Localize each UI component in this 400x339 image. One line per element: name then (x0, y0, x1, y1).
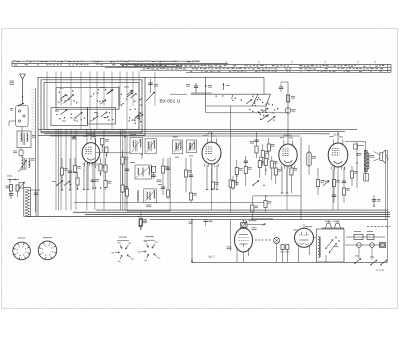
resistor R14 (184, 158, 191, 192)
coupling C20 (250, 132, 259, 158)
tube socket diagram B1 (13, 238, 31, 260)
resistor R17 (231, 176, 238, 190)
switch unit wires (47, 72, 155, 211)
switch contacts row SD (91, 87, 114, 104)
link dashes (255, 239, 272, 241)
screen R16 (235, 160, 242, 186)
contact S11 (252, 181, 264, 187)
grid wire W1 (189, 219, 193, 263)
capacitor C3 (30, 190, 40, 217)
capacitor C14 (91, 163, 99, 190)
field coil wire (345, 142, 366, 188)
switch section SB (88, 108, 116, 125)
switch inner frame (56, 86, 119, 109)
elco C22 (307, 145, 316, 175)
capacitor C11 (68, 158, 72, 190)
grid R18 (207, 182, 219, 190)
IF transformer T2a (130, 134, 143, 154)
svg-text:UL41: UL41 (333, 133, 340, 137)
switch detail SK2 (138, 236, 160, 261)
svg-text:17 S 41: 17 S 41 (376, 269, 385, 272)
svg-text:fig. 2: fig. 2 (209, 255, 216, 259)
IF frame (127, 135, 170, 211)
capacitor C18 (189, 158, 197, 203)
resistor R26 (139, 220, 147, 230)
tube V5 UL41 (235, 220, 257, 262)
bottom rail (192, 261, 387, 263)
oscillator coil S2 (19, 157, 35, 172)
cathode R8 (99, 158, 106, 176)
AF feed line (247, 219, 273, 226)
label V2 (204, 220, 213, 227)
resistor R22 (274, 162, 281, 184)
contact S12 (323, 180, 329, 186)
mains chain fuses (345, 231, 386, 260)
plus marks (175, 156, 193, 158)
ballast resistor (317, 229, 345, 262)
wire stubs (91, 129, 338, 142)
cathode R26 (316, 168, 323, 195)
antenna switch S0 (18, 103, 24, 107)
components R30 (151, 166, 155, 179)
IF transformer T2b (141, 139, 156, 159)
resistor R11 (139, 212, 146, 230)
grid components V1 (101, 138, 109, 158)
label BX 651 U (160, 98, 181, 104)
resistor R6 (73, 158, 80, 173)
switch section SA (51, 108, 88, 126)
pin wires V3 (281, 166, 298, 193)
trimmer C2 (18, 182, 25, 190)
frame antenna L1 (24, 188, 31, 217)
mains switch contacts (354, 256, 387, 266)
labels T5 (146, 205, 151, 208)
volume feed (251, 196, 258, 220)
capacitor C15 (125, 160, 129, 199)
speaker feed wire (385, 150, 387, 262)
voltage selector (322, 221, 345, 229)
antenna socket box BU1 (9, 106, 28, 127)
resistor R20 chain (279, 82, 296, 144)
switch contacts row SE (121, 87, 143, 106)
label fig2 (209, 255, 216, 259)
svg-text:UF41: UF41 (207, 132, 214, 136)
band switch frame (36, 77, 265, 216)
resistor R28 (350, 166, 357, 186)
resistor R5 (60, 158, 67, 190)
capacitor C10 node (186, 77, 288, 113)
grid R24 (261, 144, 268, 166)
AVC network R21 (270, 156, 277, 180)
volume potentiometer R25 (241, 220, 248, 229)
ground bus (27, 210, 390, 220)
IF transformer T3b (186, 140, 196, 153)
label fig3 (376, 269, 385, 272)
tube socket diagram B2 (38, 237, 57, 259)
screen R27 (332, 167, 340, 203)
HT bus lines (38, 129, 357, 136)
resistor R7 (76, 172, 79, 190)
svg-text:UCH42: UCH42 (86, 132, 96, 136)
tube V6 UY41 (293, 224, 317, 262)
tube V1 UCH42 (82, 132, 130, 168)
tube V3 UBC41 (279, 134, 297, 169)
pin bars V2 (206, 165, 219, 190)
IF transformer T4 (130, 162, 151, 179)
grid leak R10 (121, 150, 128, 193)
svg-text:BX 651 U: BX 651 U (160, 98, 181, 104)
padder C5 (13, 148, 23, 158)
dial cord strip (32, 89, 35, 136)
label R26 value (252, 227, 257, 230)
screen R9 (104, 158, 111, 190)
svg-text:UBC41: UBC41 (283, 134, 292, 138)
junction parts (72, 133, 126, 139)
resistor R13 (166, 158, 170, 199)
switch detail SK1 (111, 237, 133, 262)
resistor R23 (264, 196, 271, 212)
grid return line (253, 195, 301, 196)
loudspeaker LS1 (374, 150, 389, 163)
resistor R25 (267, 138, 274, 160)
pin wires to bus (87, 166, 338, 210)
pilot lamp LA1 (274, 238, 290, 263)
IF stage R12 (161, 158, 169, 195)
AF section edge (300, 137, 302, 219)
pin bars V1 (83, 163, 102, 190)
tuning gang contacts (249, 97, 278, 122)
tone C24 (342, 167, 350, 203)
resistor R1 / capacitor C1 (6, 185, 20, 200)
AGC bus (74, 202, 265, 203)
wire W13 (227, 220, 232, 251)
tube V2 UF41 (202, 132, 221, 167)
IF transformer T5 (144, 189, 157, 203)
switch contacts row SC (58, 88, 77, 104)
tube V4 UL41 (328, 133, 348, 170)
mains dashes (367, 226, 390, 228)
antenna A1 (10, 74, 26, 104)
input transformer T1 (17, 127, 36, 148)
IF transformer T3a (173, 137, 183, 154)
labels 470k (157, 180, 163, 185)
detector parts (244, 156, 252, 186)
speaker tap (372, 195, 381, 207)
AVC network R19 (258, 156, 265, 178)
output transformer T6 (357, 142, 375, 181)
oscillator switch box SG (170, 94, 270, 158)
resistor R15 (229, 158, 236, 212)
AVC network R20 (264, 154, 267, 175)
switch contacts row SF (129, 108, 144, 124)
coil L5 (137, 191, 138, 202)
switch contact row S10 (52, 181, 71, 187)
trimmer C8 (146, 79, 158, 101)
terminal TA (7, 176, 19, 184)
dial scale band (12, 61, 391, 73)
